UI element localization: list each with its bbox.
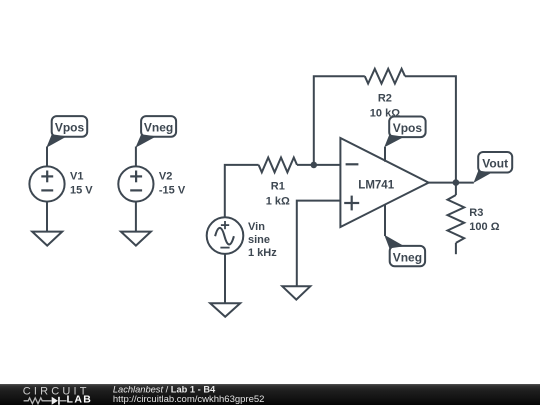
flag Vneg (net label on V2) — [135, 116, 176, 148]
wire Vout node to R3 — [455, 183, 457, 195]
flag Vpos (op-amp supply) — [384, 117, 425, 148]
ground at non-inverting input — [282, 286, 310, 299]
CircuitLab logo: diode glyph — [52, 397, 58, 405]
svg-text:V2: V2 — [159, 171, 172, 183]
voltage source V2 — [118, 166, 153, 201]
ground under V1 — [32, 232, 62, 246]
flag Vneg (op-amp supply) — [384, 235, 425, 266]
ground under Vin — [210, 303, 240, 317]
wire V1 bottom — [46, 202, 48, 232]
svg-text:Vneg: Vneg — [393, 250, 422, 264]
wire Vin bottom — [224, 254, 226, 303]
svg-text:R1: R1 — [271, 181, 285, 193]
op-amp U1 LM741 — [340, 138, 428, 227]
wire V2 top — [135, 147, 137, 168]
voltage source V1 — [29, 166, 64, 201]
svg-text:Vin: Vin — [248, 221, 265, 233]
svg-text:R2: R2 — [378, 92, 392, 104]
wire feedback left — [314, 76, 365, 165]
wire V1 top — [46, 147, 48, 168]
wire op-amp Vneg pin — [384, 204, 386, 236]
svg-text:Vout: Vout — [482, 156, 508, 170]
wire Vin to R1 — [225, 165, 259, 218]
wire op-amp Vpos pin — [384, 147, 386, 162]
wire R3 bottom stub — [455, 243, 457, 254]
label V1 15 V — [70, 171, 93, 197]
resistor R3 — [448, 195, 465, 243]
label R1 1 kOhm — [266, 181, 290, 208]
resistor R1 — [259, 158, 297, 173]
footer bar — [0, 384, 540, 405]
CircuitLab logo: resistor glyph — [24, 398, 52, 404]
svg-text:LAB: LAB — [67, 394, 93, 405]
svg-text:http://circuitlab.com/cwkhh63g: http://circuitlab.com/cwkhh63gpre52 — [113, 394, 265, 405]
svg-text:1 kΩ: 1 kΩ — [266, 196, 290, 208]
wire op-amp non-inverting input — [297, 201, 341, 287]
resistor R2 — [365, 69, 405, 84]
svg-text:V1: V1 — [70, 171, 83, 183]
wire R1 to op-amp — [297, 164, 340, 166]
label V2 -15 V — [159, 171, 186, 197]
ground under V2 — [121, 232, 151, 246]
label R2 10 kOhm — [370, 92, 400, 119]
node Vout junction — [453, 179, 460, 186]
svg-text:Vneg: Vneg — [144, 121, 173, 135]
wire op-amp output — [429, 182, 474, 184]
svg-text:Vpos: Vpos — [393, 121, 423, 135]
label R3 100 Ohm — [469, 207, 499, 233]
sine source Vin — [207, 217, 244, 254]
svg-text:sine: sine — [248, 234, 270, 246]
svg-text:-15 V: -15 V — [159, 184, 186, 196]
flag Vout — [474, 152, 513, 183]
svg-text:1 kHz: 1 kHz — [248, 247, 277, 259]
svg-text:LM741: LM741 — [358, 180, 394, 192]
svg-text:Vpos: Vpos — [55, 121, 85, 135]
wire V2 bottom — [135, 202, 137, 232]
label Vin sine 1 kHz — [248, 221, 277, 259]
node A junction (R1/R2/op-amp inverting input) — [311, 162, 318, 169]
svg-text:15 V: 15 V — [70, 184, 93, 196]
flag Vpos (net label on V1) — [46, 116, 87, 148]
svg-text:100 Ω: 100 Ω — [469, 221, 499, 233]
svg-text:R3: R3 — [469, 207, 483, 219]
wire feedback right — [405, 76, 456, 182]
